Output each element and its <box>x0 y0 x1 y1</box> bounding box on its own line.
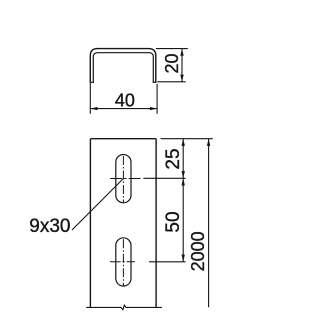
svg-text:25: 25 <box>163 148 184 169</box>
svg-text:9x30: 9x30 <box>29 216 70 237</box>
svg-text:50: 50 <box>163 211 184 232</box>
svg-text:2000: 2000 <box>188 231 208 271</box>
svg-text:20: 20 <box>162 53 182 73</box>
svg-text:40: 40 <box>115 90 135 110</box>
